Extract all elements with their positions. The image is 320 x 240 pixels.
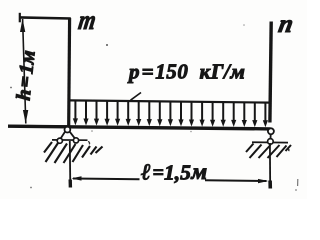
dimension l: right extension blob	[268, 181, 272, 189]
dimension l: left line segment	[73, 178, 140, 181]
dimension l: left arrowhead	[71, 176, 81, 180]
svg-text:n: n	[276, 11, 295, 38]
speck	[190, 131, 192, 133]
speck: comma right of support A hatching	[88, 142, 90, 145]
support A: left foot circle	[57, 138, 62, 143]
speck	[243, 24, 245, 26]
svg-text:ℓ: ℓ	[141, 159, 151, 184]
dimension l: right line segment	[205, 179, 267, 182]
support A (pin): ground line through feet	[52, 139, 88, 141]
speck	[295, 189, 297, 191]
svg-text:h=1м: h=1м	[13, 49, 40, 102]
dimension l: right arrowhead	[258, 179, 268, 183]
wire: left end tick of top line	[19, 13, 21, 22]
speck	[106, 44, 108, 46]
support B: link	[270, 134, 272, 138]
support B (roller): pin circle	[268, 128, 274, 134]
speck	[91, 130, 93, 132]
label m	[76, 6, 97, 36]
distributed load: top line	[70, 100, 271, 102]
wire: bottom reference line for h (left overhang)	[8, 125, 68, 128]
wire: top line of left post	[20, 17, 71, 18]
speck	[10, 87, 12, 89]
dimension h: top arrowhead	[20, 19, 25, 33]
support B: hatching	[246, 144, 291, 159]
dimension l: right extension line below support B	[269, 143, 271, 189]
speck	[30, 187, 32, 189]
svg-text:=: =	[153, 162, 164, 184]
svg-text:p=150кГ/м: p=150кГ/м	[127, 60, 245, 84]
distributed load: arrows	[73, 101, 268, 128]
support A: right foot circle	[73, 138, 78, 143]
label n	[276, 11, 295, 38]
dimension l: left extension line below support A	[69, 141, 72, 188]
dimension l: left extension blob	[68, 180, 72, 188]
label h=1м (rotated)	[13, 49, 40, 102]
beam mn	[8, 126, 271, 129]
support A: left leg	[60, 131, 65, 139]
post n (right column)	[270, 22, 271, 123]
svg-text:m: m	[76, 6, 97, 36]
speck	[297, 179, 299, 186]
svg-text:1,5м: 1,5м	[164, 159, 207, 184]
speck: comma near right hatching	[288, 149, 289, 152]
support A: hatching	[44, 142, 103, 163]
dimension h: vertical dimension line	[23, 19, 26, 124]
post m (left column)	[67, 18, 71, 126]
support A: pin circle	[65, 127, 71, 133]
support A: right leg	[70, 131, 76, 138]
dimension h: bottom arrowhead	[23, 110, 28, 124]
leader line from label p to load	[131, 93, 142, 101]
support B: ground line	[252, 141, 288, 143]
support B: roller circle	[268, 139, 274, 145]
